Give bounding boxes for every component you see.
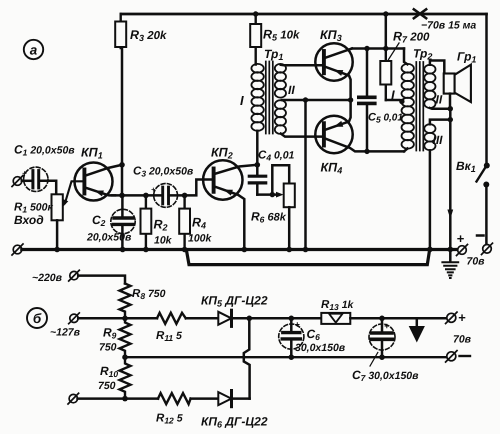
resistor R9 zigzag (99, 318, 131, 357)
node rail center-tap (303, 247, 309, 253)
node C2 top junction (119, 193, 125, 199)
svg-text:R12 5: R12 5 (156, 413, 183, 426)
svg-text:30,0х150в: 30,0х150в (295, 342, 346, 354)
wire right edge down to switch (485, 14, 488, 163)
svg-text:II: II (436, 93, 443, 107)
node C6 top (289, 316, 295, 322)
node rail common vertical (448, 247, 454, 253)
node emitters junction (348, 97, 353, 102)
transformer Tr2 primary I coil (402, 64, 414, 149)
svg-text:а: а (30, 43, 38, 58)
svg-text:70в: 70в (467, 256, 486, 268)
wire R12 to diode KP6 (191, 397, 219, 400)
svg-text:R9: R9 (103, 326, 117, 341)
svg-text:КП2: КП2 (211, 146, 233, 161)
node collector-line R7 (383, 46, 388, 51)
svg-text:Вк1: Вк1 (456, 159, 476, 174)
svg-text:Вход: Вход (14, 213, 44, 227)
wire Tr2 III top to common (430, 120, 450, 125)
wire KP3 collector line (352, 47, 404, 50)
svg-text:750: 750 (99, 342, 117, 354)
svg-text:750: 750 (98, 380, 116, 392)
wire bottom rail to R12 (78, 397, 159, 400)
resistor R8 zigzag (120, 284, 166, 319)
transistor Q KP3 (315, 28, 352, 100)
wire top rail branch to collector line (385, 14, 388, 49)
wire R6 top loop (272, 165, 289, 194)
transformer Tr2 winding III coil (424, 124, 435, 150)
node common III junction (448, 117, 453, 122)
node C6 bottom (289, 354, 295, 360)
svg-text:R11 5: R11 5 (156, 330, 182, 343)
wire 220v to R8 (78, 276, 125, 284)
wire middle minus rail (125, 356, 446, 358)
node rail R6 (286, 247, 292, 253)
resistor R6 (251, 184, 295, 250)
svg-text:100k: 100k (188, 233, 213, 245)
capacitor C3 (133, 166, 194, 208)
terminal minus (a) (482, 243, 493, 254)
node KP1 collector junction (119, 162, 125, 168)
wire Tr2 II bottom to common (430, 107, 450, 110)
label minus dash (477, 234, 484, 237)
svg-text:+: + (22, 169, 27, 178)
node R10 bottom junction (122, 396, 128, 402)
svg-text:III: III (433, 133, 444, 147)
svg-text:С6: С6 (307, 327, 321, 342)
svg-text:II: II (288, 83, 295, 97)
node wiper loop junction (270, 192, 275, 197)
svg-text:С7 30,0х150в: С7 30,0х150в (352, 368, 419, 383)
terminal input top (12, 176, 23, 187)
svg-text:I: I (240, 93, 244, 108)
wire R3 to collector node KP1 (121, 48, 124, 196)
wire R13 to plus terminal (350, 317, 447, 320)
transformer Tr2 secondary II coil (424, 65, 435, 108)
node R9 R10 junction (122, 354, 128, 360)
svg-text:б: б (33, 311, 42, 326)
resistor R1 volume (14, 181, 83, 249)
terminal minus (b) (446, 351, 457, 362)
node rail Tr2 III (427, 247, 433, 253)
capacitor C2 (86, 195, 135, 249)
wire lower return bus (187, 251, 430, 265)
node rail R2 (143, 247, 149, 253)
svg-text:R8 750: R8 750 (132, 288, 166, 301)
transformer Tr1 primary I coil (251, 64, 263, 131)
svg-text:~220в: ~220в (32, 272, 63, 284)
svg-text:R7 200: R7 200 (393, 30, 430, 45)
svg-text:I: I (391, 88, 395, 103)
resistor R10 zigzag (98, 357, 131, 398)
wire Tr2 primary bottom to KP4 collector line (404, 149, 407, 152)
node top rail R5 (253, 11, 258, 16)
svg-text:70в: 70в (453, 334, 472, 346)
wire Tr2 III bottom down to ground rail (429, 150, 432, 249)
wire top supply rail (121, 13, 487, 16)
terminal ground left (12, 244, 23, 255)
capacitor C6 (279, 318, 346, 357)
node top rail branch (383, 11, 388, 16)
node C7 bottom (379, 354, 385, 360)
wire center tap down to ground rail (304, 100, 307, 250)
svg-text:+: + (151, 185, 156, 194)
svg-text:R3 20k: R3 20k (130, 28, 167, 43)
wire R11 to diode KP5 (186, 317, 219, 320)
wire diode tie vertical with hop (244, 318, 250, 398)
fuse X -70v (414, 9, 426, 18)
node collector-line-4 C5 (364, 149, 369, 154)
node R2 top (143, 193, 149, 199)
capacitor C7 (352, 318, 419, 383)
current arrow on common vertical (447, 210, 453, 220)
svg-text:С5 0,01: С5 0,01 (368, 112, 403, 125)
diode KP6 (201, 391, 268, 430)
label minus dash (b) (460, 355, 471, 357)
svg-text:R5 10k: R5 10k (263, 28, 300, 43)
wire C4 wiper arrow to R6 (257, 192, 283, 198)
svg-text:С1 20,0х50в: С1 20,0х50в (14, 143, 75, 158)
svg-text:С3 20,0х50в: С3 20,0х50в (133, 166, 194, 179)
wire Tr1 II center tap to emitters (282, 99, 351, 102)
wire Tr1 II bottom to KP4 base (281, 134, 323, 137)
svg-text:−70в 15 ма: −70в 15 ма (421, 20, 476, 32)
label (a) circle (24, 40, 43, 59)
resistor R7 (380, 30, 430, 101)
terminal plus (b) (446, 312, 457, 323)
terminal plus (a) (457, 245, 468, 256)
transistor Q KP2 (203, 146, 257, 250)
ground symbol (a) (442, 249, 458, 278)
ground symbol (b) (409, 318, 425, 342)
transistor Q KP4 (315, 100, 367, 176)
terminal ~127v (69, 313, 80, 324)
svg-text:КП4: КП4 (321, 161, 343, 176)
wire 127v rail to R11 (78, 317, 157, 320)
svg-text:10k: 10k (154, 235, 173, 247)
wire C1 to R1 top (41, 181, 57, 195)
node Tr2 primary tap (399, 99, 404, 104)
switch Vk1 (456, 159, 490, 188)
svg-text:+: + (295, 320, 301, 330)
resistor R5 (250, 14, 300, 65)
transformer Tr2 core (416, 62, 423, 151)
svg-text:С4 0,01: С4 0,01 (258, 150, 295, 163)
capacitor C4 (249, 150, 294, 195)
node rail R4 (182, 247, 188, 253)
capacitor C5 (359, 49, 404, 152)
node rail KP2 emitter (242, 247, 248, 253)
svg-text:20,0х50в: 20,0х50в (86, 232, 132, 244)
wire common vertical to plus terminal (449, 109, 452, 250)
svg-text:R10: R10 (100, 364, 118, 379)
resistor R11 zigzag (156, 313, 186, 343)
svg-text:С2: С2 (92, 213, 106, 228)
wire KP6 to tie vertical (232, 397, 250, 400)
svg-text:КП5 ДГ-Ц22: КП5 ДГ-Ц22 (201, 294, 268, 309)
wire Tr2 II top to speaker (430, 61, 444, 74)
resistor R2 (141, 195, 173, 249)
svg-text:R2: R2 (154, 218, 168, 233)
wire R7 bottom to Tr2 primary tap (386, 100, 402, 101)
node diode output junction (247, 316, 253, 322)
label (b) circle (27, 308, 47, 328)
wire KP4 collector line (367, 150, 404, 153)
resistor R3 (115, 14, 167, 48)
node common II junction (448, 106, 453, 111)
wire collector line down to Tr2 primary top (404, 49, 407, 65)
node R8 R9 junction (122, 316, 128, 322)
wire Tr1 II top to KP3 base (281, 64, 323, 67)
transformer Tr1 secondary II coil (275, 64, 286, 134)
node rail C2 (120, 247, 126, 253)
svg-text:+: + (458, 310, 466, 325)
svg-text:Гр1: Гр1 (457, 50, 476, 65)
svg-text:R6 68k: R6 68k (251, 210, 287, 225)
svg-text:КП6 ДГ-Ц22: КП6 ДГ-Ц22 (201, 415, 268, 430)
node KP2 collector junction (254, 162, 260, 168)
node rail R1 (54, 247, 60, 253)
resistor R12 zigzag (156, 393, 191, 425)
svg-text:КП1: КП1 (81, 146, 103, 161)
svg-text:R13 1k: R13 1k (321, 299, 355, 312)
transformer Tr1 core (266, 62, 273, 134)
svg-text:+: + (457, 231, 465, 246)
node C7 top (379, 316, 385, 322)
diode KP5 (201, 294, 268, 327)
svg-text:Тр1: Тр1 (264, 47, 283, 62)
resistor R4 (179, 195, 212, 249)
wire speaker bottom to common vertical (449, 94, 452, 109)
speaker Gr1 (444, 50, 477, 103)
wire C3 to KP2 base (170, 180, 212, 196)
wire Tr1 primary bottom to KP2 collector node (256, 131, 259, 165)
svg-text:~127в: ~127в (50, 327, 81, 339)
svg-text:+: + (384, 321, 390, 331)
svg-text:КП3: КП3 (320, 28, 342, 43)
wire bottom ground rail (22, 248, 458, 251)
node tap-down junction (303, 97, 308, 102)
wire emitter line to C3 (112, 194, 161, 197)
terminal ~220v (69, 270, 80, 281)
transistor Q KP1 (75, 146, 123, 201)
svg-text:R4: R4 (192, 216, 206, 231)
node collector-line C5 (364, 46, 369, 51)
capacitor C1 (14, 143, 75, 192)
wire switch to minus terminal (485, 187, 488, 244)
wire KP5 to plus rail (232, 317, 322, 320)
wire input to C1 (22, 180, 31, 183)
resistor R13 (321, 299, 355, 324)
node R4 top (182, 193, 188, 199)
terminal bottom (b) (68, 393, 79, 404)
